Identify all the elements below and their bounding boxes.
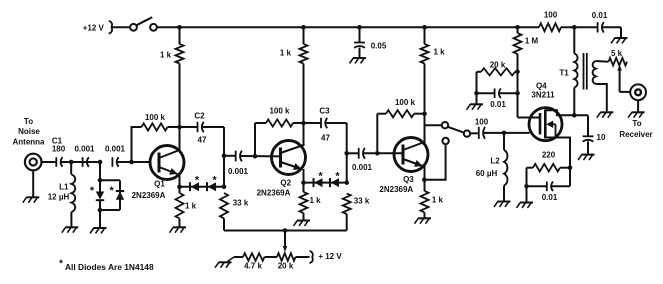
svg-text:1 k: 1 k [432, 196, 444, 205]
svg-text:1 M: 1 M [525, 36, 539, 45]
svg-text:1 k: 1 k [309, 196, 321, 205]
svg-text:220: 220 [542, 150, 556, 159]
svg-text:*: * [195, 174, 200, 186]
svg-text:Noise: Noise [18, 127, 40, 136]
svg-text:*: * [90, 185, 95, 197]
svg-text:3N211: 3N211 [531, 90, 555, 99]
svg-text:Q2: Q2 [280, 179, 291, 188]
svg-text:2N2369A: 2N2369A [257, 189, 291, 198]
svg-text:Q4: Q4 [536, 82, 547, 91]
svg-text:C3: C3 [319, 106, 330, 115]
svg-text:4.7 k: 4.7 k [244, 262, 262, 271]
svg-text:0.001: 0.001 [352, 163, 373, 172]
svg-text:5 k: 5 k [611, 49, 623, 58]
svg-text:Q3: Q3 [403, 175, 414, 184]
svg-text:100: 100 [544, 10, 558, 19]
svg-text:33 k: 33 k [233, 198, 249, 207]
svg-text:To: To [24, 117, 33, 126]
svg-text:100 k: 100 k [395, 98, 416, 107]
svg-text:10: 10 [597, 133, 606, 142]
svg-text:C2: C2 [194, 111, 205, 120]
svg-text:0.01: 0.01 [490, 100, 506, 109]
svg-text:*: * [335, 170, 340, 182]
svg-text:12 µH: 12 µH [48, 192, 70, 201]
svg-text:2N2369A: 2N2369A [379, 185, 413, 194]
svg-text:33 k: 33 k [354, 196, 370, 205]
svg-text:1 k: 1 k [185, 201, 197, 210]
svg-text:Receiver: Receiver [619, 130, 652, 139]
svg-text:1 k: 1 k [433, 47, 445, 56]
svg-text:0.001: 0.001 [105, 145, 126, 154]
svg-text:+12 V: +12 V [83, 23, 105, 32]
svg-text:Q1: Q1 [154, 179, 165, 188]
svg-text:1 k: 1 k [160, 50, 172, 59]
svg-text:2N2369A: 2N2369A [132, 191, 166, 200]
svg-text:*: * [212, 174, 217, 186]
svg-text:0.001: 0.001 [228, 167, 249, 176]
svg-text:180: 180 [52, 145, 66, 154]
svg-text:*: * [318, 170, 323, 182]
svg-text:*: * [109, 185, 114, 197]
svg-text:T1: T1 [559, 68, 569, 77]
svg-text:0.001: 0.001 [74, 144, 95, 153]
svg-text:L2: L2 [490, 156, 500, 165]
svg-text:+ 12 V: + 12 V [318, 252, 342, 261]
svg-text:20 k: 20 k [278, 262, 294, 271]
svg-text:To: To [632, 119, 641, 128]
svg-text:100 k: 100 k [145, 113, 166, 122]
svg-text:L1: L1 [59, 182, 69, 191]
svg-text:0.01: 0.01 [592, 11, 608, 20]
svg-text:*: * [59, 259, 63, 270]
svg-text:47: 47 [321, 134, 330, 143]
svg-text:20 k: 20 k [490, 60, 506, 69]
svg-text:Antenna: Antenna [13, 137, 46, 146]
svg-text:100: 100 [475, 117, 489, 126]
svg-text:0.05: 0.05 [371, 41, 387, 50]
svg-text:100 k: 100 k [269, 106, 290, 115]
svg-text:60 µH: 60 µH [476, 169, 498, 178]
svg-text:47: 47 [198, 135, 207, 144]
svg-text:All Diodes Are 1N4148: All Diodes Are 1N4148 [65, 262, 154, 272]
svg-text:1 k: 1 k [280, 48, 292, 57]
svg-text:0.01: 0.01 [542, 193, 558, 202]
